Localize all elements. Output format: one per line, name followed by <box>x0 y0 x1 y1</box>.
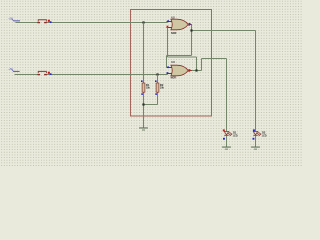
resistor R1 <box>141 80 151 104</box>
junction node S/R2 <box>156 73 158 75</box>
NOR gate U2 <box>167 16 193 35</box>
wire net Q <box>168 28 227 132</box>
wire net S <box>15 74 168 75</box>
LED D1 <box>223 129 238 146</box>
wire R1 drop <box>143 23 145 84</box>
NOR gate U3 <box>167 60 193 79</box>
svg-text:10k: 10k <box>146 87 151 90</box>
wire net R <box>16 22 168 23</box>
wire resistor common to ground <box>144 105 158 128</box>
power terminal P1 <box>8 16 20 21</box>
svg-text:U3: U3 <box>171 60 175 64</box>
junction node R/R1 <box>142 21 144 23</box>
state square U3 in1 blue <box>167 66 169 68</box>
subcircuit border box <box>131 10 212 117</box>
state square SW2 red <box>48 72 50 74</box>
state square U2 out blue <box>189 23 191 25</box>
button SW1 <box>37 19 46 23</box>
svg-text:D2: D2 <box>262 131 266 135</box>
junction node Qbar branch <box>190 29 192 31</box>
state square U2 in1 blue <box>167 20 169 22</box>
LED D2 <box>253 129 267 146</box>
state square SW1 blue <box>50 21 52 23</box>
state square SW1 red <box>48 20 50 22</box>
wire net Qbar <box>167 25 256 132</box>
state square U2 in2 red <box>167 26 169 28</box>
svg-text:10k: 10k <box>160 87 165 90</box>
junction node Q output <box>195 69 197 71</box>
state square U3 in2 blue <box>167 72 169 74</box>
state square U3 out red <box>189 69 191 71</box>
svg-text:LED: LED <box>262 135 267 137</box>
wire R2 drop <box>157 75 159 84</box>
svg-text:NOR: NOR <box>171 77 177 80</box>
ground GND2 <box>222 147 231 150</box>
state square SW2 blue <box>50 73 52 75</box>
junction node resistor common <box>142 103 144 105</box>
button SW2 <box>37 71 46 75</box>
ground GND3 <box>251 147 260 150</box>
resistor R2 <box>155 80 165 104</box>
svg-text:NOR: NOR <box>171 32 177 35</box>
svg-text:U2: U2 <box>171 16 175 20</box>
ground GND1 <box>139 127 148 130</box>
svg-text:LED: LED <box>233 135 238 137</box>
power terminal P2 <box>8 67 19 72</box>
svg-text:D1: D1 <box>233 131 237 135</box>
